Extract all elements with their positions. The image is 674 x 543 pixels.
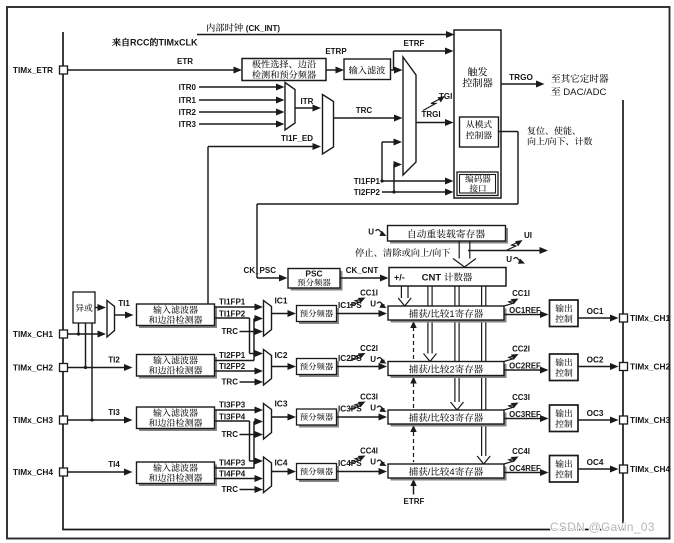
- svg-text:U: U: [368, 228, 374, 237]
- svg-text:CC3I: CC3I: [360, 393, 378, 402]
- block auto-reload register: [390, 228, 508, 244]
- block CNT counter: [389, 268, 506, 287]
- svg-text:极性选择、边沿: 极性选择、边沿: [252, 60, 316, 70]
- svg-text:控制: 控制: [555, 368, 573, 378]
- wire TI3: [68, 419, 129, 421]
- block capture/compare register 4: [391, 467, 507, 481]
- svg-text:从模式: 从模式: [466, 120, 493, 130]
- svg-text:TI4FP4: TI4FP4: [219, 470, 246, 479]
- svg-text:编码器: 编码器: [465, 174, 491, 184]
- svg-text:和边沿检测器: 和边沿检测器: [148, 366, 202, 376]
- svg-text:预分频器: 预分频器: [297, 278, 331, 288]
- svg-text:TIMx_CH1: TIMx_CH1: [13, 329, 53, 339]
- pin TIMx_CH1 (output): [620, 314, 628, 322]
- svg-text:TI1F_ED: TI1F_ED: [281, 134, 313, 143]
- pin TIMx_CH2 (output): [620, 363, 628, 371]
- mux IC3-select: [264, 404, 272, 440]
- svg-text:TIMx_ETR: TIMx_ETR: [13, 65, 53, 75]
- mux IC2-select: [264, 350, 272, 386]
- block output control ch1: [550, 300, 579, 327]
- hollow arrow counter to CCR4: [481, 286, 483, 456]
- wire from ch1 (mux top input): [250, 353, 259, 355]
- wire T2FP1 from ch2 (mux middle input): [254, 318, 259, 320]
- svg-text:向上/向下、计数: 向上/向下、计数: [527, 137, 593, 147]
- svg-text:至 DAC/ADC: 至 DAC/ADC: [551, 87, 607, 98]
- block input filter & edge detector ch4: [139, 465, 217, 487]
- block input filter (ETR): [344, 59, 391, 80]
- svg-text:CC2I: CC2I: [512, 345, 530, 354]
- wire update event to right: [468, 250, 543, 252]
- wire TI2: [68, 367, 129, 369]
- block encoder interface U_enc: [457, 172, 498, 196]
- svg-text:CC4I: CC4I: [512, 447, 530, 456]
- wire ETRF dashed (capture trigger): [413, 327, 415, 462]
- wire T4FP3 from ch4 (mux middle input): [254, 421, 259, 423]
- svg-text:控制器: 控制器: [462, 78, 493, 90]
- wire ETRP: [326, 69, 339, 71]
- svg-text:和边沿检测器: 和边沿检测器: [148, 473, 202, 483]
- svg-text:TI4FP3: TI4FP3: [219, 459, 246, 468]
- wire XOR input from CH1: [78, 323, 80, 334]
- svg-text:TIMx_CH2: TIMx_CH2: [13, 363, 53, 373]
- svg-text:预分频器: 预分频器: [300, 467, 334, 477]
- svg-text:CC1I: CC1I: [512, 289, 530, 298]
- mux trigger-select U_trg: [403, 57, 416, 175]
- svg-text:TI1FP1: TI1FP1: [219, 298, 246, 307]
- svg-text:TI3FP4: TI3FP4: [219, 413, 246, 422]
- mux TI1-select: [107, 301, 115, 338]
- svg-text:和边沿检测器: 和边沿检测器: [148, 315, 202, 325]
- wire TI4: [68, 471, 129, 473]
- wire TI1F_ED vertical from CH1 filter: [207, 147, 209, 305]
- svg-text:CC4I: CC4I: [360, 447, 378, 456]
- svg-text:TRC: TRC: [222, 430, 239, 439]
- svg-text:预分频器: 预分频器: [300, 309, 334, 319]
- block capture/compare register 2: [391, 364, 507, 378]
- svg-text:TIMx_CH2: TIMx_CH2: [630, 362, 670, 372]
- svg-text:至其它定时器: 至其它定时器: [551, 73, 609, 85]
- svg-text:捕获/比较1寄存器: 捕获/比较1寄存器: [409, 308, 484, 320]
- svg-text:U: U: [370, 300, 376, 309]
- pin TIMx_CH3 (output): [620, 416, 628, 424]
- svg-text:TRC: TRC: [222, 378, 239, 387]
- block prescaler ch2: [299, 361, 339, 377]
- svg-text:捕获/比较4寄存器: 捕获/比较4寄存器: [409, 466, 484, 478]
- svg-text:OC1REF: OC1REF: [509, 306, 541, 315]
- svg-text:输入滤波器: 输入滤波器: [153, 356, 198, 366]
- svg-text:CC2I: CC2I: [360, 344, 378, 353]
- svg-text:内部时钟 (CK_INT): 内部时钟 (CK_INT): [206, 23, 280, 33]
- svg-text:TI1: TI1: [118, 299, 130, 308]
- svg-text:预分频器: 预分频器: [300, 412, 334, 422]
- svg-text:ITR1: ITR1: [179, 96, 197, 105]
- svg-text:TI2FP2: TI2FP2: [219, 362, 246, 371]
- wire slave-mode control to PSC (CK_PSC): [499, 131, 519, 133]
- pin TIMx_ETR: [60, 66, 68, 74]
- svg-text:TI3: TI3: [108, 408, 120, 417]
- mux ITR-select U_itr: [285, 83, 295, 131]
- svg-text:输出: 输出: [555, 358, 573, 368]
- svg-text:CK_CNT: CK_CNT: [346, 266, 379, 275]
- wire from ch3 (mux top input): [250, 460, 259, 462]
- mux TRC-select U_trc: [323, 95, 334, 155]
- svg-text:TRC: TRC: [222, 327, 239, 336]
- hollow arrow counter to CCR1: [400, 286, 402, 298]
- svg-text:TRGI: TRGI: [421, 110, 440, 119]
- hollow arrow counter to CCR2: [427, 286, 429, 354]
- block input filter & edge detector ch3: [139, 410, 217, 432]
- pin TIMx_CH4 (output): [620, 465, 628, 473]
- svg-text:OC2: OC2: [587, 356, 604, 365]
- svg-text:捕获/比较2寄存器: 捕获/比较2寄存器: [409, 364, 484, 376]
- wire ETRF to trigger mux: [391, 69, 398, 71]
- event UI marker: [506, 241, 521, 251]
- wire ETR: [68, 69, 238, 71]
- svg-text:预分频器: 预分频器: [300, 362, 334, 372]
- block prescaler ch1: [299, 308, 339, 324]
- svg-text:TI4: TI4: [108, 460, 120, 469]
- svg-text:ITR2: ITR2: [179, 108, 197, 117]
- svg-text:CC1I: CC1I: [360, 289, 378, 298]
- svg-text:ITR3: ITR3: [179, 120, 197, 129]
- wire CK_INT (internal clock): [197, 34, 450, 36]
- wire XOR out: [95, 307, 102, 309]
- event TGI marker: [423, 97, 444, 111]
- svg-text:IC1: IC1: [274, 296, 287, 306]
- block input filter & edge detector ch2: [139, 357, 217, 379]
- svg-text:输入滤波器: 输入滤波器: [153, 463, 198, 473]
- svg-text:TI1FP1: TI1FP1: [354, 177, 381, 186]
- wire ETRF branch to trigger controller: [393, 51, 395, 70]
- block output control ch2: [550, 354, 579, 381]
- svg-text:CK_PSC: CK_PSC: [244, 266, 277, 275]
- svg-text:+/-: +/-: [394, 273, 405, 283]
- svg-text:U: U: [370, 458, 376, 467]
- svg-text:TIMx_CH3: TIMx_CH3: [630, 415, 670, 425]
- block capture/compare register 1: [391, 309, 507, 323]
- timer boundary line (inner U frame): [63, 32, 623, 530]
- block prescaler ch3: [299, 412, 339, 428]
- svg-text:和边沿检测器: 和边沿检测器: [148, 418, 202, 428]
- svg-text:停止、清除或向上/向下: 停止、清除或向上/向下: [355, 248, 451, 258]
- svg-text:TIMx_CH4: TIMx_CH4: [13, 467, 53, 477]
- block prescaler ch4: [299, 466, 339, 482]
- hollow arrow counter to CCR3: [454, 286, 456, 402]
- svg-text:检测和预分频器: 检测和预分频器: [252, 70, 316, 80]
- svg-text:控制: 控制: [555, 470, 573, 480]
- svg-text:OC3: OC3: [587, 409, 604, 418]
- svg-text:输出: 输出: [555, 459, 573, 469]
- svg-text:ITR0: ITR0: [179, 83, 197, 92]
- svg-text:TI3FP3: TI3FP3: [219, 401, 246, 410]
- wire TI3FP4/TI4FP3 cross link: [249, 421, 251, 461]
- svg-text:TGI: TGI: [439, 92, 452, 101]
- svg-text:输入滤波器: 输入滤波器: [153, 305, 198, 315]
- svg-text:触发: 触发: [467, 67, 487, 79]
- svg-text:TIMx_CH4: TIMx_CH4: [630, 464, 670, 474]
- svg-text:复位、使能、: 复位、使能、: [527, 126, 581, 136]
- svg-text:TIMx_CH3: TIMx_CH3: [13, 415, 53, 425]
- hollow arrow auto-reload to counter: [458, 242, 460, 259]
- svg-text:CNT 计数器: CNT 计数器: [422, 273, 473, 284]
- block polarity/edge-detector/prescaler: [242, 59, 326, 81]
- svg-text:自动重装载寄存器: 自动重装载寄存器: [407, 229, 486, 241]
- svg-text:来自RCC的TIMxCLK: 来自RCC的TIMxCLK: [112, 38, 198, 48]
- svg-text:CC3I: CC3I: [512, 393, 530, 402]
- svg-text:控制器: 控制器: [466, 131, 493, 141]
- svg-text:U: U: [370, 404, 376, 413]
- block capture/compare register 3: [391, 413, 507, 427]
- svg-text:TI2FP1: TI2FP1: [219, 351, 246, 360]
- svg-text:OC3REF: OC3REF: [509, 410, 541, 419]
- svg-text:U: U: [370, 355, 376, 364]
- svg-text:异或: 异或: [75, 303, 93, 313]
- svg-text:ETRF: ETRF: [404, 497, 425, 506]
- svg-text:TI1FP2: TI1FP2: [219, 310, 246, 319]
- svg-text:捕获/比较3寄存器: 捕获/比较3寄存器: [409, 412, 484, 424]
- svg-text:TRC: TRC: [222, 485, 239, 494]
- svg-text:输出: 输出: [555, 304, 573, 314]
- block output control ch4: [550, 456, 579, 483]
- wire TI1F_ED: [208, 146, 317, 148]
- wire TI1FP2/TI2FP1 cross link: [249, 318, 251, 354]
- svg-text:OC2REF: OC2REF: [509, 362, 541, 371]
- svg-text:IC3: IC3: [274, 399, 287, 409]
- svg-text:TRC: TRC: [356, 106, 373, 115]
- block input filter & edge detector ch1: [139, 307, 217, 329]
- wire XOR input from CH2: [85, 323, 87, 368]
- wire XOR input from CH3: [91, 323, 93, 420]
- svg-text:ETRF: ETRF: [404, 39, 425, 48]
- svg-text:接口: 接口: [469, 184, 486, 194]
- svg-text:输入滤波器: 输入滤波器: [153, 408, 198, 418]
- svg-text:OC4REF: OC4REF: [509, 464, 541, 473]
- svg-text:控制: 控制: [555, 314, 573, 324]
- svg-text:TI2FP2: TI2FP2: [354, 188, 381, 197]
- block trigger controller U_trig: [454, 30, 501, 198]
- svg-text:ETRP: ETRP: [325, 47, 347, 56]
- svg-text:IC4: IC4: [274, 458, 287, 468]
- block PSC prescaler: [291, 271, 343, 291]
- svg-text:IC2: IC2: [274, 350, 287, 360]
- svg-text:OC1: OC1: [587, 307, 604, 316]
- svg-text:U: U: [506, 255, 512, 264]
- svg-text:TI2: TI2: [108, 356, 120, 365]
- svg-text:输出: 输出: [555, 409, 573, 419]
- svg-text:CSDN @Gavin_03: CSDN @Gavin_03: [550, 520, 655, 534]
- svg-text:ITR: ITR: [301, 97, 314, 106]
- block output control ch3: [550, 405, 579, 432]
- svg-text:输入滤波: 输入滤波: [349, 66, 386, 76]
- block XOR: [73, 292, 95, 323]
- block slave mode controller U_smc: [460, 117, 499, 147]
- mux IC4-select: [264, 457, 272, 493]
- svg-text:UI: UI: [524, 231, 532, 240]
- mux IC1-select: [264, 301, 272, 337]
- svg-text:控制: 控制: [555, 419, 573, 429]
- svg-text:OC4: OC4: [587, 458, 604, 467]
- svg-text:ETR: ETR: [177, 57, 193, 66]
- wire CH1 to TI1 mux: [68, 333, 102, 335]
- wire TRC: [334, 117, 398, 119]
- svg-text:TRGO: TRGO: [509, 73, 533, 82]
- svg-text:TIMx_CH1: TIMx_CH1: [630, 313, 670, 323]
